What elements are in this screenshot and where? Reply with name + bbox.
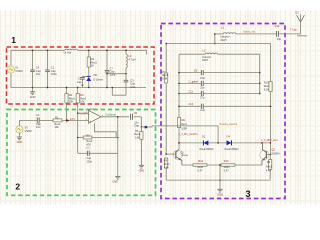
wire inner loop left bus <box>178 54 180 149</box>
svg-text:C_gabel: C_gabel <box>189 80 199 83</box>
svg-text:100p: 100p <box>110 72 116 76</box>
port to region 3 (blue) <box>145 126 148 128</box>
ground for region 1 rail <box>32 88 34 92</box>
svg-text:InV1: InV1 <box>70 118 76 121</box>
svg-text:T Cap: T Cap <box>290 28 298 32</box>
svg-text:9.9K: 9.9K <box>162 78 167 81</box>
wire C12 to antenna <box>279 33 301 35</box>
svg-text:GND: GND <box>30 96 36 99</box>
ground below R5 <box>139 164 144 166</box>
capacitor C1 <box>47 50 49 70</box>
capacitor C7 <box>106 50 108 70</box>
resistor R1 series input <box>53 119 62 122</box>
svg-text:Diode BB910: Diode BB910 <box>225 148 240 151</box>
svg-text:R11: R11 <box>181 119 186 122</box>
svg-text:27p: 27p <box>200 97 205 100</box>
antenna E1 <box>300 23 302 34</box>
wire top rail left segment <box>11 49 65 51</box>
capacitor C12 series <box>276 31 278 37</box>
diode D4 (varactor) <box>227 140 232 145</box>
wire output corner down <box>140 117 142 127</box>
wire input segment 2 <box>62 119 89 121</box>
svg-text:C11: C11 <box>189 91 194 94</box>
resistor R13 <box>221 164 235 166</box>
zener diode D6 (vertical, cathode up) <box>87 75 91 77</box>
wire to port <box>141 126 144 128</box>
wire C3 bottom return <box>112 94 126 96</box>
feedback right vertical to ground <box>117 117 119 176</box>
svg-text:0.47: 0.47 <box>198 170 203 173</box>
svg-text:2.2p: 2.2p <box>200 109 205 112</box>
resistor R5 to ground <box>140 127 142 131</box>
svg-text:2N3904: 2N3904 <box>181 155 189 157</box>
svg-text:4.4K: 4.4K <box>266 169 271 172</box>
wire outer loop top <box>166 43 270 45</box>
resistor R3 (bias divider) <box>77 88 79 94</box>
svg-text:L4 Vdd: L4 Vdd <box>64 51 72 54</box>
svg-text:Antenna: Antenna <box>297 34 307 37</box>
svg-text:9.1K: 9.1K <box>264 88 269 91</box>
wire outer loop left vertical <box>165 44 167 74</box>
ground below feedback <box>115 175 120 177</box>
wire input segment 1 <box>19 119 37 121</box>
svg-text:VSRC: VSRC <box>15 69 23 73</box>
inductor L3 <box>125 50 127 54</box>
svg-text:D6: D6 <box>94 73 98 77</box>
wire bottom rail <box>11 87 146 89</box>
region 1 boundary box (red dashed) <box>7 47 155 104</box>
svg-text:GND: GND <box>112 181 118 184</box>
wire top rail right stub down <box>146 50 148 54</box>
svg-text:1: 1 <box>11 35 16 45</box>
feedback capacitor C2 <box>78 152 88 154</box>
voltage source V1 <box>10 50 12 66</box>
inductor L4 (series, top rail) <box>65 49 78 50</box>
wire varactor tuning feed <box>152 125 218 127</box>
svg-text:1_4_MPV_decr: 1_4_MPV_decr <box>261 139 278 142</box>
svg-text:6.8n: 6.8n <box>130 85 136 89</box>
capacitor C8 branch <box>179 72 201 74</box>
svg-text:VSRC: VSRC <box>25 129 33 133</box>
svg-text:C12: C12 <box>275 24 280 28</box>
resistor R11 on bus <box>177 118 180 128</box>
svg-text:GND: GND <box>217 194 223 197</box>
svg-text:2: 2 <box>86 112 87 114</box>
op-amp U2 <box>88 110 101 123</box>
capacitor C4 <box>32 50 34 70</box>
svg-text:C13: C13 <box>189 103 194 106</box>
svg-text:1K: 1K <box>91 64 94 68</box>
svg-text:2N3904: 2N3904 <box>272 153 281 155</box>
resistor R10 <box>269 82 272 92</box>
svg-text:10k: 10k <box>54 125 59 129</box>
ground center region 3 <box>219 165 221 189</box>
svg-text:14k: 14k <box>135 136 140 140</box>
svg-text:2: 2 <box>15 182 20 192</box>
transistor Q2 <box>260 150 269 159</box>
svg-text:dobry_vtd: dobry_vtd <box>244 29 256 33</box>
wire top rail right segment <box>78 49 147 51</box>
capacitor C6 series output <box>130 114 132 120</box>
svg-text:10u: 10u <box>36 72 41 76</box>
svg-text:C6: C6 <box>134 111 138 115</box>
svg-text:GND: GND <box>139 170 145 173</box>
resistor R2 (bias divider) <box>66 88 68 94</box>
resistor R9 <box>269 155 271 160</box>
svg-text:Cap: Cap <box>134 124 139 128</box>
svg-text:10u: 10u <box>36 125 41 129</box>
svg-text:0.47: 0.47 <box>224 170 229 173</box>
wire L1 riser <box>214 34 216 44</box>
wire inner loop right vertical <box>259 54 261 93</box>
capacitor C_gabel branch <box>179 82 201 84</box>
svg-text:hmotna_vaestra: hmotna_vaestra <box>219 123 238 126</box>
capacitor C5 <box>82 76 84 79</box>
svg-text:33p: 33p <box>277 37 282 41</box>
feedback left vertical <box>77 113 79 153</box>
svg-text:Diode BB910: Diode BB910 <box>200 148 215 151</box>
region 2 boundary box (green dashed) <box>7 110 156 196</box>
inductor L1 <box>223 33 236 34</box>
svg-text:100R: 100R <box>181 128 187 131</box>
svg-text:100u: 100u <box>51 72 57 76</box>
svg-text:Res2: Res2 <box>134 132 141 136</box>
capacitor C11 branch <box>179 93 201 95</box>
inductor L2 <box>179 53 205 55</box>
svg-text:R13: R13 <box>224 160 229 163</box>
svg-text:40uH: 40uH <box>221 39 227 42</box>
port arrow InV <box>67 119 69 121</box>
capacitor C3 <box>125 74 127 81</box>
svg-text:1_4_MV_pancho: 1_4_MV_pancho <box>179 133 199 136</box>
capacitor C13 branch <box>179 105 201 107</box>
voltage source V2 <box>16 126 23 133</box>
ground below V2 <box>18 133 20 137</box>
svg-text:10k: 10k <box>80 100 85 104</box>
svg-text:GND: GND <box>17 141 23 144</box>
svg-text:6.8p: 6.8p <box>200 77 205 80</box>
wire emitter rail <box>182 164 262 166</box>
wire op-amp pin 4 to feedback node <box>95 123 117 137</box>
wire antenna feed <box>215 33 223 35</box>
svg-text:R12: R12 <box>198 160 203 163</box>
wire bottom return <box>166 179 270 181</box>
op-amp output wire <box>101 116 129 118</box>
svg-text:10k: 10k <box>69 100 74 104</box>
svg-text:R5: R5 <box>135 129 139 133</box>
region 3 boundary box (purple dashed) <box>161 24 285 199</box>
wire L1 to C12 <box>236 33 277 35</box>
svg-text:120p: 120p <box>86 161 92 164</box>
wire diode row <box>179 142 271 144</box>
svg-text:+: + <box>89 120 91 124</box>
wire zener to bottom rail <box>88 81 90 88</box>
svg-text:D Zener: D Zener <box>93 78 103 82</box>
resistor R8 <box>165 158 168 168</box>
svg-text:OutVamp: OutVamp <box>105 112 116 116</box>
svg-text:Res1: Res1 <box>266 166 272 169</box>
feedback resistor R6 <box>78 137 83 139</box>
wire port jog <box>148 126 152 127</box>
svg-text:4.7uH: 4.7uH <box>128 58 135 62</box>
svg-text:C1: C1 <box>36 113 40 117</box>
wire op-amp minus input <box>78 112 89 114</box>
svg-text:E1: E1 <box>296 10 300 14</box>
svg-text:Res1: Res1 <box>181 123 187 126</box>
diode D1 (varactor) <box>203 140 208 145</box>
wire zener node <box>83 76 89 78</box>
svg-text:-: - <box>89 112 90 116</box>
svg-text:9.9K: 9.9K <box>164 166 169 169</box>
transistor Q1 <box>173 150 182 159</box>
capacitor C1 series input <box>36 117 38 123</box>
svg-text:39uH: 39uH <box>202 59 208 62</box>
resistor R7 <box>165 73 168 83</box>
wire C7 to L3 bottom <box>107 73 126 75</box>
resistor R4 <box>88 50 90 57</box>
resistor R12 <box>193 164 207 166</box>
svg-text:3: 3 <box>86 119 87 121</box>
svg-text:23p: 23p <box>200 86 205 89</box>
wire outer loop right vertical <box>270 44 272 82</box>
svg-text:R1: R1 <box>55 115 59 119</box>
svg-text:V2: V2 <box>25 126 29 130</box>
